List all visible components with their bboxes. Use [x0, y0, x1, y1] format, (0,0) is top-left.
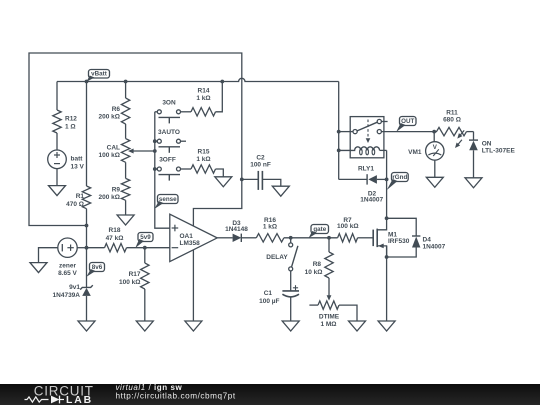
- junction rail-3OFF: [153, 167, 157, 171]
- node sense flag: [155, 195, 178, 209]
- resistor R18: [87, 227, 170, 252]
- svg-text:5v9: 5v9: [140, 234, 151, 241]
- footer bar: [0, 384, 540, 405]
- wire relay to drain: [386, 150, 388, 218]
- pushbutton 3OFF: [155, 157, 191, 181]
- svg-text:1 kΩ: 1 kΩ: [196, 156, 210, 163]
- svg-text:3ON: 3ON: [162, 99, 176, 106]
- ground R9: [117, 215, 134, 225]
- svg-text:DTIME: DTIME: [319, 313, 340, 320]
- svg-text:470 Ω: 470 Ω: [66, 201, 84, 208]
- svg-text:1N4007: 1N4007: [360, 197, 383, 204]
- wire switch rail to op-amp plus: [155, 112, 170, 228]
- svg-text:1 Ω: 1 Ω: [65, 124, 76, 131]
- svg-text:1N4007: 1N4007: [423, 243, 446, 250]
- svg-text:680 Ω: 680 Ω: [443, 116, 461, 123]
- svg-text:1 MΩ: 1 MΩ: [320, 321, 336, 328]
- junction R1-bottom: [85, 224, 89, 228]
- node gate flag: [309, 225, 329, 239]
- resistor R1: [66, 186, 91, 209]
- pushbutton 3ON: [155, 99, 191, 123]
- svg-text:R17: R17: [129, 271, 141, 278]
- wire OUT row: [381, 131, 437, 133]
- switch DELAY: [266, 238, 298, 291]
- diode D2: [339, 174, 387, 203]
- junction R6-rail: [124, 80, 128, 84]
- ground op-amp: [185, 321, 202, 331]
- diode D3: [217, 220, 256, 242]
- wire battery to ground: [56, 169, 58, 186]
- node rGnd flag: [387, 173, 408, 191]
- svg-text:DELAY: DELAY: [266, 254, 288, 261]
- LED ON: [455, 130, 515, 177]
- footer title virtual1 / ign sw: [116, 383, 183, 392]
- svg-text:LAB: LAB: [66, 395, 93, 405]
- ground C1: [282, 321, 299, 331]
- wire relay rail: [338, 82, 340, 180]
- ground M1: [378, 321, 395, 331]
- resistor R11: [437, 109, 474, 136]
- battery batt: [48, 150, 85, 170]
- ground R17: [136, 321, 153, 331]
- ground battery: [49, 186, 66, 196]
- svg-text:C1: C1: [264, 290, 273, 297]
- svg-text:IRF530: IRF530: [388, 238, 410, 245]
- junction source-node: [385, 255, 389, 259]
- junction R14-rail: [220, 80, 224, 84]
- ground R15: [215, 177, 232, 187]
- potentiometer CAL: [99, 139, 155, 163]
- resistor R12: [53, 110, 78, 133]
- svg-text:rGnd: rGnd: [392, 174, 407, 181]
- wire R7 to gate: [358, 237, 374, 239]
- svg-text:100 kΩ: 100 kΩ: [119, 279, 140, 286]
- transistor M1: [373, 218, 410, 257]
- resistor R8: [305, 238, 334, 301]
- svg-text:D4: D4: [423, 236, 432, 243]
- svg-text:8.65 V: 8.65 V: [58, 270, 77, 277]
- junction D2-node: [385, 178, 389, 182]
- logo LAB: [66, 395, 93, 405]
- junction rail-3AUTO: [153, 139, 157, 143]
- svg-text:100 µF: 100 µF: [259, 298, 279, 305]
- wire signal row to R7: [284, 237, 338, 239]
- svg-text:200 kΩ: 200 kΩ: [99, 194, 120, 201]
- node 8v6 flag: [87, 263, 105, 277]
- svg-text:9v1: 9v1: [69, 284, 80, 291]
- diode D4: [387, 218, 446, 257]
- wire op-amp V+ supply loop: [29, 53, 242, 226]
- svg-text:R15: R15: [198, 149, 210, 156]
- resistor R16: [256, 217, 284, 242]
- svg-text:3OFF: 3OFF: [159, 157, 176, 164]
- svg-text:RLY1: RLY1: [358, 166, 374, 173]
- svg-text:200 kΩ: 200 kΩ: [99, 114, 120, 121]
- logo resistor-diode glyph: [25, 396, 65, 404]
- junction R8-top: [327, 236, 331, 240]
- junction coil-in: [337, 149, 341, 153]
- resistor R6: [99, 98, 130, 124]
- svg-text:R8: R8: [313, 261, 322, 268]
- wire R12 to battery: [56, 133, 58, 150]
- wire vBatt column to R1: [86, 82, 88, 187]
- junction R17-top: [143, 246, 147, 250]
- resistor R14: [191, 82, 222, 117]
- svg-text:OUT: OUT: [401, 118, 414, 125]
- op-amp OA1: [170, 214, 217, 261]
- svg-text:sense: sense: [159, 196, 177, 203]
- capacitor C2: [242, 155, 281, 190]
- junction relay-in: [337, 130, 341, 134]
- svg-text:R1: R1: [76, 193, 85, 200]
- svg-text:batt: batt: [71, 155, 84, 162]
- svg-text:100 kΩ: 100 kΩ: [337, 223, 358, 230]
- svg-text:R12: R12: [65, 116, 77, 123]
- ground LED: [465, 178, 482, 188]
- resistor R15: [191, 149, 223, 177]
- svg-text:47 kΩ: 47 kΩ: [106, 235, 124, 242]
- svg-text:CAL: CAL: [107, 144, 120, 151]
- svg-text:R11: R11: [446, 109, 458, 116]
- junction VM1-top: [432, 130, 436, 134]
- wire R12 top lead: [56, 82, 58, 111]
- wire vBatt rail: [57, 78, 339, 81]
- resistor R9: [99, 178, 130, 201]
- junction C2-supply: [240, 178, 244, 182]
- zener diode 9v1: [53, 284, 93, 321]
- svg-text:1N4148: 1N4148: [225, 226, 248, 233]
- ammeter zener: [39, 238, 87, 277]
- wire op-amp V- to ground: [192, 250, 194, 321]
- wire R9 to ground: [125, 200, 127, 215]
- resistor R7: [337, 217, 358, 242]
- svg-text:LTL-307EE: LTL-307EE: [482, 147, 516, 154]
- potentiometer DTIME: [309, 301, 357, 328]
- svg-text:100 nF: 100 nF: [250, 162, 271, 169]
- junction vBatt-column: [85, 80, 89, 84]
- wire R6 to CAL: [125, 124, 127, 139]
- relay RLY1: [339, 117, 388, 173]
- junction CAL-wiper-rail: [153, 149, 157, 153]
- wire R1 to zener node: [86, 209, 88, 288]
- svg-text:gate: gate: [313, 226, 326, 233]
- ground ammeter: [30, 263, 47, 273]
- junction DELAY-top: [289, 236, 293, 240]
- svg-text:1 kΩ: 1 kΩ: [196, 95, 210, 102]
- svg-text:1 kΩ: 1 kΩ: [263, 224, 277, 231]
- svg-text:R6: R6: [112, 106, 121, 113]
- svg-text:R18: R18: [109, 227, 121, 234]
- pushbutton 3AUTO: [155, 129, 186, 153]
- node vBatt flag: [87, 70, 110, 82]
- svg-text:1N4739A: 1N4739A: [53, 292, 81, 299]
- svg-text:zener: zener: [59, 262, 76, 269]
- voltmeter VM1: [408, 132, 444, 178]
- capacitor C1: [259, 285, 299, 321]
- svg-text:VM1: VM1: [408, 149, 422, 156]
- footer url: [116, 392, 236, 401]
- svg-text:R9: R9: [112, 186, 121, 193]
- svg-text:ON: ON: [482, 140, 492, 147]
- ground C2: [272, 186, 289, 196]
- wire source to ground: [386, 246, 388, 321]
- svg-text:http://circuitlab.com/cbmq7pt: http://circuitlab.com/cbmq7pt: [116, 392, 236, 401]
- node OUT flag: [396, 117, 416, 132]
- wire R6 top lead: [125, 82, 127, 99]
- wire CAL to R9: [125, 162, 127, 178]
- svg-text:R14: R14: [198, 88, 210, 95]
- ground DTIME: [349, 321, 366, 331]
- svg-text:LM358: LM358: [180, 240, 201, 247]
- svg-text:vBatt: vBatt: [91, 71, 107, 78]
- ground VM1: [426, 177, 443, 187]
- svg-text:100 kΩ: 100 kΩ: [99, 152, 120, 159]
- resistor R17: [119, 248, 149, 321]
- svg-text:8v6: 8v6: [92, 264, 103, 271]
- node 5v9 flag: [135, 233, 153, 249]
- logo CIRCUIT: [34, 383, 94, 398]
- junction drain-node: [385, 216, 389, 220]
- svg-text:10 kΩ: 10 kΩ: [305, 269, 323, 276]
- ground zener: [78, 321, 95, 331]
- svg-text:3AUTO: 3AUTO: [158, 129, 180, 136]
- svg-text:13 V: 13 V: [71, 163, 85, 170]
- junction ammeter-zener: [85, 246, 89, 250]
